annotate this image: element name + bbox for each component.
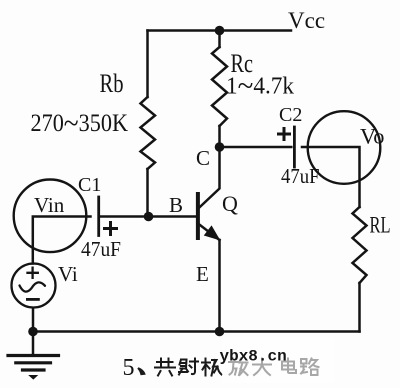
wire top rail Vcc	[148, 29, 292, 32]
junction dot node C	[215, 142, 225, 152]
resistor RL	[353, 207, 367, 283]
wire bottom rail	[33, 330, 360, 333]
measurement loop Vo circle	[308, 111, 381, 184]
svg-text:47uF: 47uF	[281, 164, 320, 188]
caption char gong	[155, 359, 175, 376]
svg-text:ybx8.cn: ybx8.cn	[220, 348, 287, 366]
wire Vi to bottom rail	[32, 308, 35, 332]
junction dot Vcc/Rc tap	[215, 26, 225, 36]
wire emitter vertical	[218, 240, 221, 332]
capacitor C1 polarity plus	[105, 223, 117, 235]
source Vi minus	[27, 298, 38, 301]
source Vi circle	[12, 264, 56, 308]
svg-text:Vi: Vi	[58, 262, 78, 286]
svg-text:RL: RL	[370, 213, 391, 239]
watermark overlay box	[222, 337, 334, 383]
transistor emitter arrow	[205, 226, 220, 239]
wire base from C1 to transistor	[101, 215, 197, 218]
junction dot emitter/rail	[215, 327, 225, 337]
transistor emitter diagonal	[199, 225, 219, 241]
wire Rb branch upper	[146, 31, 149, 98]
svg-text:5: 5	[123, 355, 135, 381]
resistor Rc	[212, 47, 227, 126]
wire Rc branch lower	[218, 126, 221, 147]
svg-text:Vcc: Vcc	[288, 8, 325, 33]
wire Rb branch lower	[146, 169, 149, 217]
svg-text:Rb: Rb	[100, 69, 124, 98]
source Vi plus	[28, 268, 38, 278]
svg-text:E: E	[196, 262, 209, 286]
svg-text:47uF: 47uF	[81, 237, 121, 261]
wire C2 to corner and down to RL	[302, 147, 360, 207]
resistor Rb	[141, 97, 156, 169]
caption char dian	[282, 359, 296, 374]
measurement loop Vin circle	[14, 180, 87, 253]
wire node C to C2	[220, 146, 292, 149]
caption char she	[179, 359, 198, 375]
svg-text:1~4.7k: 1~4.7k	[226, 70, 294, 103]
caption glyphs (hand-drawn)	[155, 358, 319, 376]
caption comma mark	[137, 367, 146, 375]
wire Vin corner to C1	[33, 217, 91, 264]
source Vi sine	[20, 282, 46, 291]
caption char da	[253, 359, 271, 376]
caption char ji	[202, 359, 222, 376]
svg-text:B: B	[169, 193, 183, 217]
caption char fang	[229, 358, 248, 375]
caption char lu	[301, 359, 319, 376]
junction dot Vi/ground	[28, 327, 38, 337]
wire Rc branch upper	[218, 31, 221, 48]
wire RL to bottom rail	[358, 283, 361, 332]
svg-text:Q: Q	[222, 191, 238, 216]
svg-text:C1: C1	[78, 174, 101, 196]
capacitor C2 plate	[293, 127, 296, 167]
ground	[8, 356, 59, 380]
transistor base bar	[196, 194, 200, 238]
capacitor C2 polarity plus	[279, 129, 290, 140]
svg-text:Vin: Vin	[34, 193, 65, 217]
svg-text:C: C	[196, 146, 210, 170]
capacitor C1 plate	[97, 197, 100, 236]
svg-text:C2: C2	[279, 104, 302, 126]
junction dot node B	[144, 212, 154, 222]
svg-text:Vo: Vo	[360, 124, 385, 149]
wire ground stem	[32, 332, 35, 356]
wire collector vertical + diagonal	[199, 147, 219, 208]
svg-text:270~350K: 270~350K	[31, 105, 129, 140]
transistor Q1 body	[198, 194, 220, 240]
